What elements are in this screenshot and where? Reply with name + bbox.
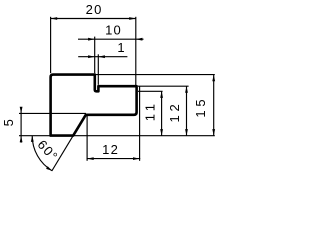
arrow 15 bottom (212, 129, 215, 136)
arc arrow bottom (46, 166, 52, 170)
svg-text:11: 11 (142, 100, 157, 121)
extension line 12 bottom right (139, 87, 141, 161)
arrow 1 right (outside) (98, 55, 105, 58)
arrow 12 top (185, 86, 188, 93)
part outline (51, 75, 137, 136)
arrow 1 left (outside) (88, 55, 95, 58)
arrow 12 bottom (185, 129, 188, 136)
dimension line 12 (186, 86, 188, 136)
dimension line 15 (213, 75, 215, 136)
extension line 12 bottom left (86, 116, 88, 161)
extension line 20 left (50, 17, 52, 73)
dimension line 12 bottom (87, 158, 141, 160)
angle arc 60deg (32, 136, 52, 171)
bevel extension line (thin) (52, 136, 73, 171)
arrow 15 top (212, 75, 215, 82)
extension line 5 top (19, 112, 86, 114)
extension line 12 top (138, 85, 189, 87)
svg-text:1: 1 (117, 40, 125, 55)
extension line 20/10 right (135, 17, 137, 85)
dimension line 11 (161, 91, 163, 135)
svg-text:5: 5 (1, 115, 16, 126)
extension line 15 top (96, 74, 215, 76)
arrow 10 left (outside) (88, 38, 95, 41)
svg-text:20: 20 (86, 2, 103, 17)
arrow 20 right (129, 17, 136, 20)
arc arrow top (31, 135, 34, 142)
svg-text:12: 12 (102, 142, 119, 157)
dimension line 20 (51, 18, 136, 20)
extension line 1 left (94, 37, 96, 74)
svg-text:10: 10 (105, 23, 122, 38)
arrow 20 left (51, 17, 58, 20)
arrow 10 right (outside) (136, 38, 143, 41)
svg-text:15: 15 (193, 96, 208, 118)
arrow 5 top (outside) (20, 107, 23, 114)
extension line 11 top (138, 90, 163, 92)
extension line 1 right (97, 54, 99, 85)
arrow 11 top (160, 91, 163, 98)
arrow 5 bottom (outside) (20, 136, 23, 143)
arrow 12b right (133, 157, 140, 160)
arrow 12b left (87, 157, 94, 160)
dimension line 5 (20, 107, 22, 143)
extension line bottom (shared) (19, 135, 215, 137)
arrow 11 bottom (160, 129, 163, 136)
dimension line 1 (78, 56, 127, 58)
dimension line 10 (78, 38, 144, 40)
svg-text:12: 12 (167, 100, 182, 122)
